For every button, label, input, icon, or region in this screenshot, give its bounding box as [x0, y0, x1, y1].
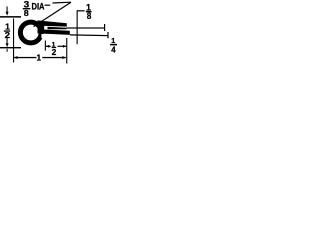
svg-text:1: 1: [37, 53, 42, 62]
svg-text:DIA: DIA: [32, 2, 45, 12]
top tangent line: [0, 16, 21, 18]
svg-text:8: 8: [24, 8, 29, 18]
bottom arrow: [7, 38, 8, 44]
svg-text:2: 2: [52, 48, 57, 57]
bottom tangent line: [0, 47, 21, 48]
one-eighth vertical line: [77, 10, 78, 44]
top prong: [38, 20, 67, 26]
cotter pin drawing: [0, 0, 119, 65]
leader shallow line: [45, 5, 51, 6]
extension line A: [67, 27, 105, 28]
half dim tick left: [45, 41, 46, 51]
left extension line: [13, 19, 14, 63]
one-eighth bracket horizontal: [77, 10, 85, 11]
gap notch upper: [44, 26, 48, 29]
seam: [48, 27, 67, 30]
bottom prong: [38, 29, 70, 35]
tick A: [104, 24, 105, 31]
eye ring: [20, 22, 41, 43]
right extension line: [66, 38, 67, 64]
tick B: [107, 32, 108, 38]
eye root blob: [38, 25, 45, 33]
half dim left arrow: [46, 46, 51, 47]
one dim line right segment: [42, 57, 66, 58]
one dim line left segment: [14, 57, 37, 58]
top arrow: [7, 7, 8, 13]
gap notch lower: [41, 34, 48, 41]
half dim right arrow: [58, 46, 67, 47]
extension line B: [70, 34, 108, 36]
svg-text:8: 8: [87, 11, 92, 21]
svg-text:4: 4: [111, 45, 116, 55]
leader diagonal: [34, 2, 72, 26]
